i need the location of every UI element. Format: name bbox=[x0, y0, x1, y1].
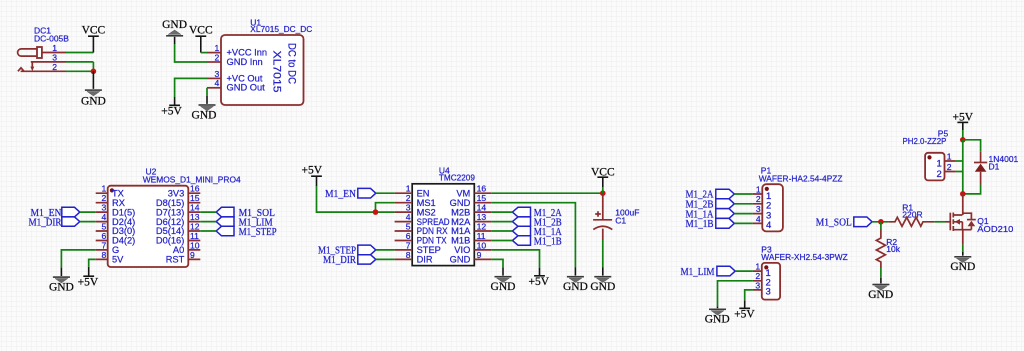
wire pin3 bbox=[66, 61, 93, 63]
svg-text:10: 10 bbox=[190, 240, 200, 250]
svg-text:GND: GND bbox=[81, 95, 106, 107]
wire bbox=[735, 270, 753, 272]
power flag VCC bbox=[189, 25, 213, 53]
svg-text:1: 1 bbox=[755, 262, 760, 272]
svg-text:D1(5): D1(5) bbox=[112, 207, 135, 217]
net port M1_1B bbox=[686, 218, 735, 230]
wire bbox=[376, 192, 395, 194]
svg-text:XL7015: XL7015 bbox=[271, 51, 283, 93]
svg-text:M1_1B: M1_1B bbox=[534, 235, 562, 247]
svg-text:1: 1 bbox=[406, 184, 411, 194]
wire pin4 to GND bbox=[206, 88, 208, 96]
svg-text:3: 3 bbox=[766, 287, 771, 298]
power flag +5V bbox=[953, 111, 974, 130]
wire bbox=[492, 221, 513, 223]
ground GND bbox=[705, 306, 730, 325]
svg-text:GND: GND bbox=[491, 281, 516, 293]
svg-text:16: 16 bbox=[190, 184, 200, 194]
wire bbox=[492, 230, 513, 232]
net port M1_SOL bbox=[216, 207, 275, 219]
wire diode bottom bbox=[963, 185, 981, 194]
ground GND bbox=[590, 268, 615, 294]
svg-text:PDN RX: PDN RX bbox=[417, 226, 448, 236]
wire VCC down bbox=[602, 187, 604, 193]
svg-text:7: 7 bbox=[102, 240, 107, 250]
svg-text:GND: GND bbox=[705, 314, 730, 326]
left pins 1-8 bbox=[395, 193, 413, 259]
svg-text:STEP: STEP bbox=[417, 245, 441, 255]
svg-text:GND: GND bbox=[868, 289, 893, 301]
MCU module U2 WEMOS_D1_MINI_PRO4 bbox=[96, 166, 241, 267]
svg-text:7: 7 bbox=[406, 240, 411, 250]
resistor R1 220R bbox=[888, 202, 934, 226]
wire VIO to +5V bbox=[492, 250, 540, 268]
wire pin7 to GND bbox=[61, 250, 95, 268]
net port M1_2B bbox=[512, 217, 561, 229]
svg-text:3: 3 bbox=[102, 203, 107, 213]
svg-text:TMC2209: TMC2209 bbox=[439, 173, 475, 183]
left pins 1-8 bbox=[96, 193, 108, 259]
resistor R2 10k bbox=[876, 222, 900, 268]
wire bbox=[200, 221, 216, 223]
junction node bbox=[960, 191, 966, 197]
power flag +5V bbox=[302, 165, 323, 187]
wire +5V to MS2 bbox=[317, 186, 395, 212]
wire pin3 to +5V bbox=[745, 290, 753, 300]
svg-text:5: 5 bbox=[406, 221, 411, 231]
svg-text:C1: C1 bbox=[615, 215, 626, 225]
svg-text:AOD210: AOD210 bbox=[977, 224, 1013, 234]
svg-text:9: 9 bbox=[190, 250, 195, 260]
wire R1 to gate bbox=[934, 221, 945, 223]
wire pin1 to VCC bbox=[66, 52, 93, 54]
svg-text:8: 8 bbox=[102, 250, 107, 260]
net port M1_EN bbox=[31, 207, 80, 219]
power flag +5V bbox=[734, 300, 755, 320]
svg-text:VCC: VCC bbox=[189, 25, 213, 37]
wire VM to VCC bbox=[492, 192, 603, 194]
pin 3 bbox=[207, 77, 221, 79]
ground GND flag upper bbox=[162, 19, 187, 44]
net port M1_1A bbox=[512, 226, 561, 238]
pin 4 bbox=[207, 87, 221, 89]
svg-text:G: G bbox=[112, 245, 119, 255]
svg-text:1: 1 bbox=[756, 184, 761, 194]
right pins 16-9 bbox=[474, 193, 492, 259]
wire bbox=[734, 222, 752, 224]
svg-text:+5V: +5V bbox=[734, 309, 755, 321]
svg-text:5V: 5V bbox=[112, 255, 124, 265]
svg-text:4: 4 bbox=[756, 214, 761, 224]
svg-text:1: 1 bbox=[937, 158, 942, 169]
net port M1_EN bbox=[325, 188, 376, 200]
junction node bbox=[878, 219, 884, 225]
svg-text:M1_DIR: M1_DIR bbox=[29, 216, 63, 228]
wire pin8 to +5V bbox=[89, 259, 96, 266]
net port M1_1B bbox=[512, 235, 561, 247]
junction node bbox=[373, 209, 379, 215]
svg-text:VM: VM bbox=[456, 188, 470, 198]
wire bbox=[376, 258, 395, 260]
svg-text:GND Out: GND Out bbox=[227, 83, 266, 93]
connector P5 PH2.0-ZZ2P bbox=[903, 129, 956, 181]
connector DC1 DC-005B barrel jack bbox=[18, 26, 70, 73]
svg-text:3: 3 bbox=[755, 280, 760, 290]
wire pin9 GND bbox=[492, 259, 503, 267]
junction node bbox=[600, 190, 606, 196]
power flag +5V bbox=[78, 267, 99, 289]
wire pin3 to +5V bbox=[175, 78, 207, 97]
power flag +5V bbox=[161, 97, 182, 118]
svg-text:M2B: M2B bbox=[451, 207, 470, 217]
ground GND bbox=[868, 278, 893, 301]
pin 2 bbox=[207, 61, 221, 63]
ground GND bbox=[192, 96, 217, 121]
svg-text:GND: GND bbox=[49, 281, 74, 293]
svg-text:DC-005B: DC-005B bbox=[34, 34, 69, 44]
svg-text:12: 12 bbox=[477, 221, 487, 231]
wire +5V down bbox=[962, 130, 964, 140]
svg-text:5: 5 bbox=[102, 221, 107, 231]
svg-text:12: 12 bbox=[190, 221, 200, 231]
svg-text:10: 10 bbox=[477, 240, 487, 250]
svg-text:PH2.0-ZZ2P: PH2.0-ZZ2P bbox=[903, 136, 947, 146]
svg-text:RST: RST bbox=[166, 255, 185, 265]
diode D1 1N4001 bbox=[974, 152, 1019, 185]
power flag +5V bbox=[529, 268, 550, 288]
power flag VCC bbox=[591, 167, 615, 188]
svg-text:3V3: 3V3 bbox=[168, 188, 185, 198]
wire pin15 GND bbox=[492, 203, 576, 268]
svg-text:+5V: +5V bbox=[529, 276, 550, 288]
svg-text:MS2: MS2 bbox=[417, 207, 436, 217]
wire vertical bus bbox=[962, 140, 964, 194]
stepper driver U4 TMC2209 bbox=[395, 166, 492, 266]
wire bbox=[734, 193, 752, 195]
ground GND bbox=[491, 267, 516, 293]
wire C1 to GND bbox=[602, 240, 604, 268]
svg-text:2: 2 bbox=[937, 169, 942, 180]
svg-text:DC to DC: DC to DC bbox=[286, 43, 298, 84]
svg-text:XL7015_DC_DC: XL7015_DC_DC bbox=[250, 24, 312, 34]
transistor Q1 AOD210 bbox=[946, 194, 1014, 245]
net port M1_2A bbox=[686, 189, 735, 201]
svg-text:M1_EN: M1_EN bbox=[325, 188, 356, 200]
svg-text:M1_1B: M1_1B bbox=[686, 218, 714, 230]
net port M1_1A bbox=[686, 208, 735, 220]
svg-text:GND: GND bbox=[563, 281, 588, 293]
svg-text:D1: D1 bbox=[989, 161, 1000, 171]
net port M1_LIM bbox=[681, 266, 736, 278]
svg-text:GND: GND bbox=[450, 255, 471, 265]
svg-text:GND Inn: GND Inn bbox=[227, 57, 263, 67]
svg-text:10k: 10k bbox=[886, 244, 900, 254]
wire MS1 jog bbox=[376, 203, 395, 212]
svg-text:D5(14): D5(14) bbox=[156, 226, 184, 236]
svg-text:M1_LIM: M1_LIM bbox=[681, 266, 715, 278]
svg-text:EN: EN bbox=[417, 188, 430, 198]
net port M1_DIR bbox=[29, 216, 80, 228]
svg-text:VIO: VIO bbox=[454, 245, 470, 255]
net port M1_DIR bbox=[323, 254, 376, 266]
DC-DC module U1 XL7015_DC_DC bbox=[207, 17, 312, 105]
wire bbox=[376, 249, 395, 251]
ground GND bbox=[950, 252, 975, 273]
wire bbox=[200, 230, 216, 232]
svg-text:D3(0): D3(0) bbox=[112, 226, 135, 236]
power flag VCC bbox=[82, 25, 106, 53]
wire bbox=[80, 221, 96, 223]
svg-text:DIR: DIR bbox=[417, 255, 433, 265]
svg-text:2: 2 bbox=[52, 62, 57, 72]
svg-text:TX: TX bbox=[112, 188, 124, 198]
wire vertical bbox=[92, 62, 94, 71]
svg-text:+5V: +5V bbox=[78, 277, 99, 289]
svg-text:3: 3 bbox=[756, 204, 761, 214]
wire pin2 bbox=[956, 171, 963, 173]
svg-text:M1_DIR: M1_DIR bbox=[323, 254, 357, 266]
net port M1_2A bbox=[512, 207, 561, 219]
svg-text:GND: GND bbox=[192, 109, 217, 121]
ground GND bbox=[81, 71, 106, 107]
wire VCC to pin1 bbox=[201, 52, 207, 54]
wire bbox=[80, 211, 96, 213]
wire R2 to GND bbox=[880, 268, 882, 278]
svg-text:2: 2 bbox=[947, 162, 952, 172]
svg-text:+5V: +5V bbox=[161, 106, 182, 118]
wire source to GND bbox=[962, 245, 964, 252]
svg-text:D7(13): D7(13) bbox=[156, 207, 184, 217]
svg-text:WAFER-HA2.54-4PZZ: WAFER-HA2.54-4PZZ bbox=[759, 173, 843, 183]
ground GND bbox=[563, 268, 588, 294]
svg-text:14: 14 bbox=[190, 203, 200, 213]
wire bbox=[492, 240, 513, 242]
wire pin2 bbox=[66, 70, 93, 72]
wire pin2 to GND bbox=[718, 281, 753, 307]
wire bbox=[492, 211, 513, 213]
svg-text:GND: GND bbox=[950, 261, 975, 273]
svg-text:VCC: VCC bbox=[82, 25, 106, 37]
wire bbox=[734, 213, 752, 215]
connector P1 WAFER-HA2.54-4PZZ bbox=[753, 166, 843, 232]
right pins 16-9 bbox=[188, 193, 200, 259]
wire GND to pin2 bbox=[175, 44, 207, 62]
svg-text:M1_STEP: M1_STEP bbox=[239, 226, 277, 238]
svg-text:3: 3 bbox=[406, 203, 411, 213]
svg-text:M1A: M1A bbox=[451, 226, 471, 236]
wire to diode top bbox=[963, 140, 981, 152]
svg-text:GND: GND bbox=[162, 19, 187, 31]
connector P3 WAFER-XH2.54-3PWZ bbox=[753, 244, 848, 299]
net port M1_STEP bbox=[216, 226, 276, 238]
net port M1_SOL bbox=[816, 217, 872, 229]
svg-text:4: 4 bbox=[766, 220, 771, 231]
svg-text:2: 2 bbox=[215, 52, 220, 62]
capacitor C1 100uF bbox=[593, 193, 639, 240]
wire pin1 bbox=[956, 160, 963, 162]
svg-text:WAFER-XH2.54-3PWZ: WAFER-XH2.54-3PWZ bbox=[761, 252, 848, 262]
wire bbox=[734, 203, 752, 205]
pin 1 bbox=[207, 52, 221, 54]
junction node bbox=[960, 137, 966, 143]
net port M1_2B bbox=[686, 199, 735, 211]
svg-text:8: 8 bbox=[406, 250, 411, 260]
svg-text:+5V: +5V bbox=[302, 165, 323, 177]
ground GND bbox=[49, 268, 74, 294]
svg-text:M1_SOL: M1_SOL bbox=[816, 217, 852, 229]
svg-text:GND: GND bbox=[590, 281, 615, 293]
svg-text:9: 9 bbox=[477, 250, 482, 260]
net port M1_LIM bbox=[216, 217, 273, 229]
svg-text:1: 1 bbox=[102, 184, 107, 194]
wire bbox=[872, 221, 888, 223]
wire bbox=[200, 211, 216, 213]
svg-text:16: 16 bbox=[477, 184, 487, 194]
svg-text:14: 14 bbox=[477, 203, 487, 213]
junction node bbox=[91, 69, 97, 75]
svg-text:2: 2 bbox=[756, 194, 761, 204]
svg-text:A0: A0 bbox=[173, 245, 184, 255]
net port M1_STEP bbox=[318, 245, 376, 257]
svg-text:4: 4 bbox=[215, 78, 220, 88]
svg-text:1: 1 bbox=[947, 151, 952, 161]
